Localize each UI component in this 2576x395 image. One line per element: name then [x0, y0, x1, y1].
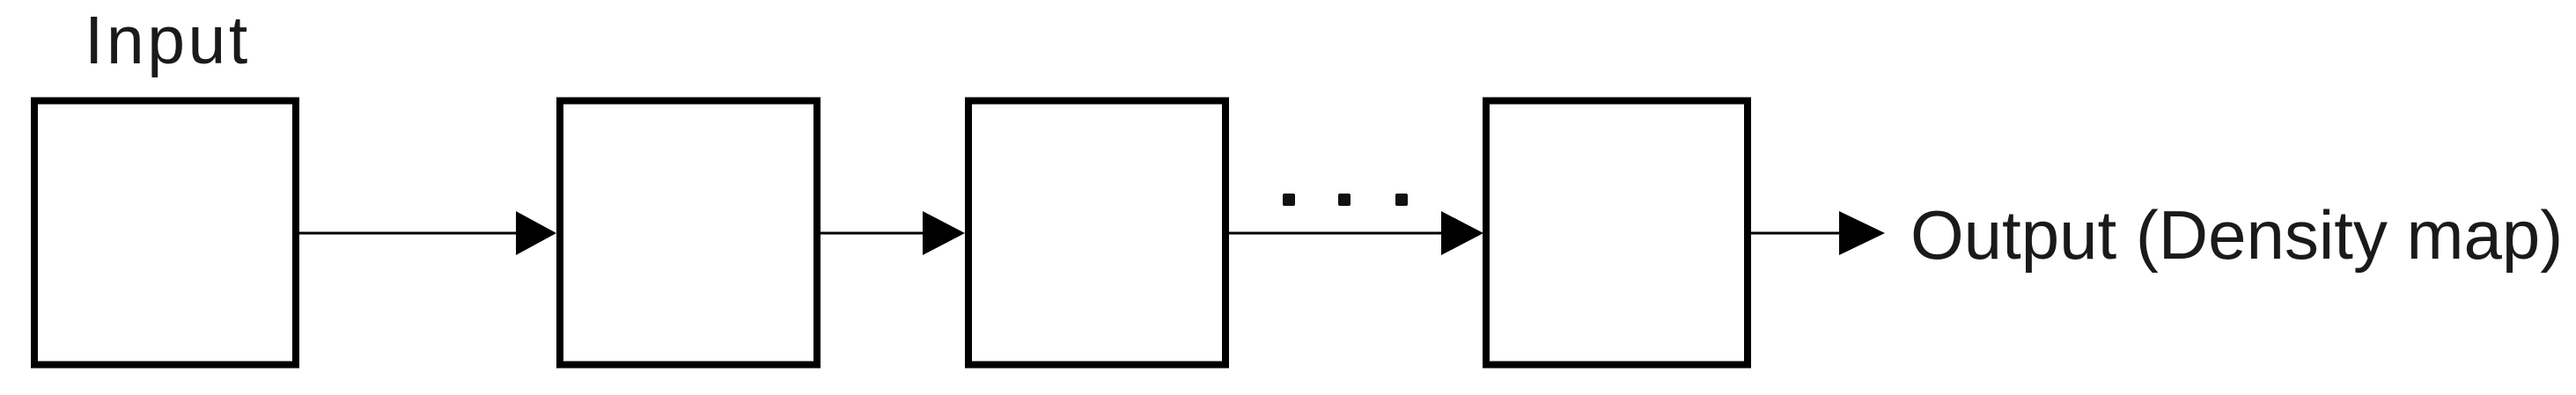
wire arrow 3 line [1229, 232, 1445, 235]
block box 2 [560, 101, 817, 365]
wire arrow 1 line [299, 232, 520, 235]
block box 4 [1486, 101, 1748, 365]
svg-text:Input: Input [85, 3, 251, 78]
block box 1 [34, 101, 296, 365]
ellipsis dots [1283, 194, 1295, 206]
wire arrow 4 line [1751, 232, 1843, 235]
wire arrow 2 head [923, 211, 965, 255]
wire arrow 3 head [1441, 211, 1483, 255]
block box 3 [968, 101, 1225, 365]
wire arrow 2 line [821, 232, 926, 235]
svg-text:Output (Density map): Output (Density map) [1910, 196, 2563, 274]
wire arrow 4 head [1839, 211, 1885, 255]
wire arrow 1 head [516, 211, 556, 255]
